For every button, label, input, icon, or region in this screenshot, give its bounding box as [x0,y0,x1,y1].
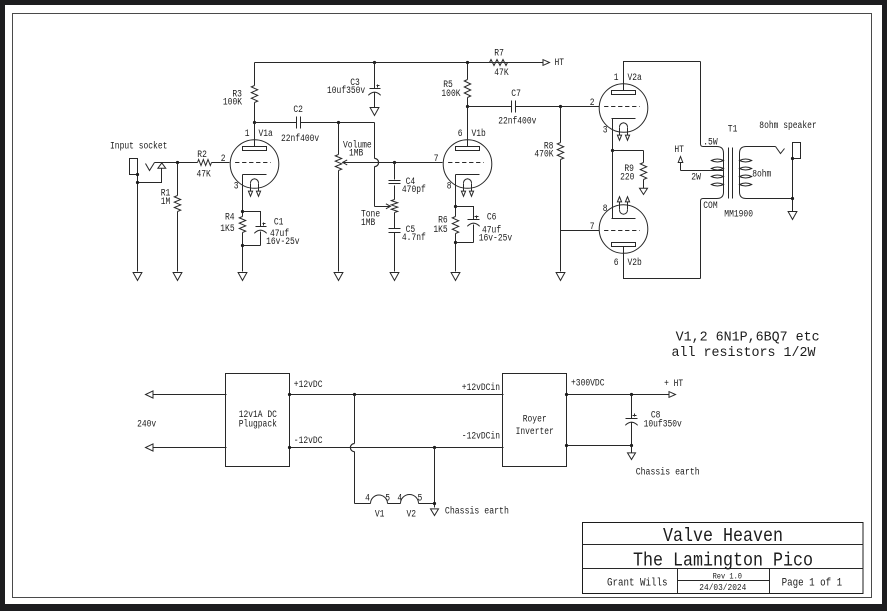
speaker jack [776,143,801,212]
svg-text:+ HT: + HT [664,379,683,390]
svg-text:V1: V1 [375,509,385,520]
resistor R4 [220,175,245,272]
node volume top [337,121,340,124]
wire heater feed [350,395,370,504]
svg-text:1: 1 [245,129,250,140]
potentiometer Volume 1MB [335,123,442,272]
transformer T1 primary [701,62,724,279]
resistor R2 [197,150,230,180]
svg-text:V2a: V2a [628,73,642,84]
wire tone feed [375,123,379,207]
wire C7 out [516,106,600,108]
ground R1 [173,273,182,281]
triode V1a [221,129,279,196]
svg-text:8: 8 [447,182,452,193]
ground V1b cathode [451,273,460,281]
title name [633,549,813,571]
svg-text:HT: HT [555,58,565,69]
title rev [713,573,742,582]
resistor R7 [490,49,544,79]
wire V1a plate [254,123,256,147]
svg-text:470K: 470K [534,149,553,160]
svg-text:+12vDC: +12vDC [294,380,323,391]
svg-text:C7: C7 [511,89,521,100]
capacitor C3 [327,61,381,108]
wire jack switch [138,169,162,183]
title date [699,583,746,593]
svg-text:1: 1 [614,73,619,84]
capacitor C5 [389,213,426,272]
svg-text:all resistors 1/2W: all resistors 1/2W [672,346,817,361]
svg-text:R4: R4 [225,213,235,224]
svg-text:Inverter: Inverter [516,427,554,438]
label T1 [728,125,738,136]
svg-text:V1,2 6N1P,6BQ7 etc: V1,2 6N1P,6BQ7 etc [676,331,820,346]
ground speaker [788,212,797,220]
capacitor C4 [389,163,426,200]
input jack J1 [130,159,166,175]
node jack sleeve [136,173,139,184]
label +12vDCin [462,382,500,394]
svg-text:1K5: 1K5 [433,225,447,236]
ground V1a cathode [238,273,247,281]
svg-text:16v-25v: 16v-25v [266,237,300,248]
svg-text:+300VDC: +300VDC [571,378,605,389]
label .5W [703,137,717,148]
svg-text:22nf400v: 22nf400v [281,133,319,145]
plugpack box [226,374,290,467]
svg-text:.5W: .5W [703,137,717,148]
input socket label [110,141,167,153]
svg-text:47K: 47K [197,170,211,181]
svg-text:5: 5 [385,493,390,504]
ground R8 [556,273,565,281]
svg-text:C6: C6 [487,213,497,224]
ground C5 [390,273,399,281]
label 8ohm [752,168,771,180]
svg-text:-12vDCin: -12vDCin [462,430,500,442]
svg-text:7: 7 [590,222,595,233]
svg-text:1MB: 1MB [349,149,363,160]
label 8ohm speaker [759,120,816,132]
svg-text:24/03/2024: 24/03/2024 [699,583,746,593]
svg-text:T1: T1 [728,125,738,136]
resistor R6 [433,175,458,272]
ground heater chassis [431,509,439,516]
svg-text:Chassis earth: Chassis earth [445,506,509,518]
wire V1b plate [467,107,469,147]
svg-text:Royer: Royer [523,415,547,426]
svg-text:2W: 2W [691,173,701,184]
node V1a plate [253,121,256,124]
svg-text:5: 5 [418,493,423,504]
note resistors [672,346,817,361]
node input [176,161,179,164]
wire cathode link [612,151,614,219]
HT centre tap [674,145,723,171]
HT rail [255,62,544,64]
svg-text:47K: 47K [494,68,508,79]
ground R9 [640,188,648,194]
note tubes [676,331,820,346]
label chassis earth C8 [636,466,700,478]
svg-text:V2b: V2b [628,257,642,269]
svg-text:6: 6 [614,258,619,269]
svg-text:3: 3 [234,182,239,193]
svg-text:4: 4 [397,493,402,504]
svg-text:COM: COM [703,201,717,212]
resistor R5 [441,61,470,107]
svg-text:V1a: V1a [259,129,273,140]
label MM1900 [724,210,753,221]
svg-text:Input socket: Input socket [110,141,167,153]
HT arrow [543,58,564,69]
svg-text:HT: HT [674,145,684,156]
capacitor C7 [498,89,536,127]
royer box [503,374,567,467]
svg-text:Rev 1.0: Rev 1.0 [713,573,742,582]
ground jack [133,273,142,281]
wire to C7 [468,106,512,108]
svg-text:Plugpack: Plugpack [239,418,277,430]
svg-text:16v-25v: 16v-25v [479,234,513,245]
svg-text:1K5: 1K5 [220,224,234,235]
svg-text:Valve Heaven: Valve Heaven [663,525,783,547]
capacitor C8 [625,395,682,446]
svg-text:1M: 1M [161,197,171,208]
svg-text:1MB: 1MB [361,218,375,229]
triode V1b [434,128,492,196]
wire V2b plate to T1 [624,247,701,279]
label 2W [691,173,701,184]
wire C2 out [301,122,375,124]
svg-text:C2: C2 [293,105,303,116]
svg-text:-12vDC: -12vDC [294,436,323,447]
svg-text:Chassis earth: Chassis earth [636,466,700,478]
svg-text:2: 2 [221,154,226,165]
triode V2a [590,73,648,140]
wire V2b grid [561,230,600,232]
wire +12vDC [288,380,504,396]
svg-text:V2: V2 [407,509,417,520]
svg-text:470pf: 470pf [402,184,426,196]
mains lead bottom [146,444,227,451]
resistor R1 [161,163,181,272]
capacitor C2 [281,105,319,145]
title page [782,578,843,590]
wire +300VDC [565,378,669,396]
label 240v [137,419,156,430]
mains lead top [146,391,227,398]
label -12vDCin [462,430,500,442]
node cathodes [611,149,614,152]
svg-text:8ohm: 8ohm [752,168,771,180]
transformer T1 core [729,148,733,199]
wire plate to C2 [255,122,297,124]
resistor R8 [534,107,563,272]
ground Volume [334,273,343,281]
resistor R9 [613,151,647,189]
svg-text:220: 220 [620,173,634,184]
HT output arrow [664,379,683,398]
wire -12vDC [288,436,504,449]
svg-text:3: 3 [603,126,608,137]
heater V1 [365,493,390,520]
svg-text:MM1900: MM1900 [724,210,753,221]
svg-text:R7: R7 [494,49,504,60]
triode V2b [590,197,648,270]
svg-text:4.7nf: 4.7nf [402,232,426,244]
svg-text:240v: 240v [137,419,156,430]
svg-text:Page 1 of 1: Page 1 of 1 [782,578,843,590]
wire heater return [419,448,437,508]
svg-text:+12vDCin: +12vDCin [462,382,500,394]
title company [663,525,783,547]
svg-text:4: 4 [365,493,370,504]
potentiometer Tone 1MB [361,200,398,229]
label chassis earth heaters [445,506,509,518]
wire jack sleeve to ground [137,175,139,272]
svg-text:7: 7 [434,154,439,165]
node V1b plate [466,105,469,108]
wire heater link [388,503,401,505]
svg-text:Grant Wills: Grant Wills [607,578,668,590]
svg-text:10uf350v: 10uf350v [327,85,365,97]
capacitor C6 [456,207,513,245]
title author [607,578,668,590]
svg-text:100K: 100K [223,97,242,108]
svg-text:8: 8 [603,204,608,215]
svg-text:10uf350v: 10uf350v [644,418,682,430]
label COM [703,201,717,212]
svg-text:8ohm speaker: 8ohm speaker [759,120,816,132]
ground C3 [370,108,379,116]
svg-text:V1b: V1b [472,128,486,140]
title block frame [583,523,864,594]
resistor R3 [223,63,258,123]
node tone junction [393,161,396,164]
heater V2 [397,493,422,520]
wire royer return [565,444,633,453]
wire jack tip to R2 [155,162,198,164]
svg-text:100K: 100K [441,89,460,100]
wire V2a plate to T1 [624,62,701,91]
capacitor C1 [243,212,300,248]
ground C8 chassis [628,453,636,460]
svg-text:R2: R2 [197,150,207,161]
svg-text:22nf400v: 22nf400v [498,116,536,128]
transformer T1 secondary [740,147,793,199]
node R8 top [559,105,562,108]
svg-text:C1: C1 [274,217,284,228]
svg-text:6: 6 [458,129,463,140]
svg-text:The Lamington Pico: The Lamington Pico [633,549,813,571]
svg-text:2: 2 [590,98,595,109]
wire V2a cathode [612,119,614,151]
